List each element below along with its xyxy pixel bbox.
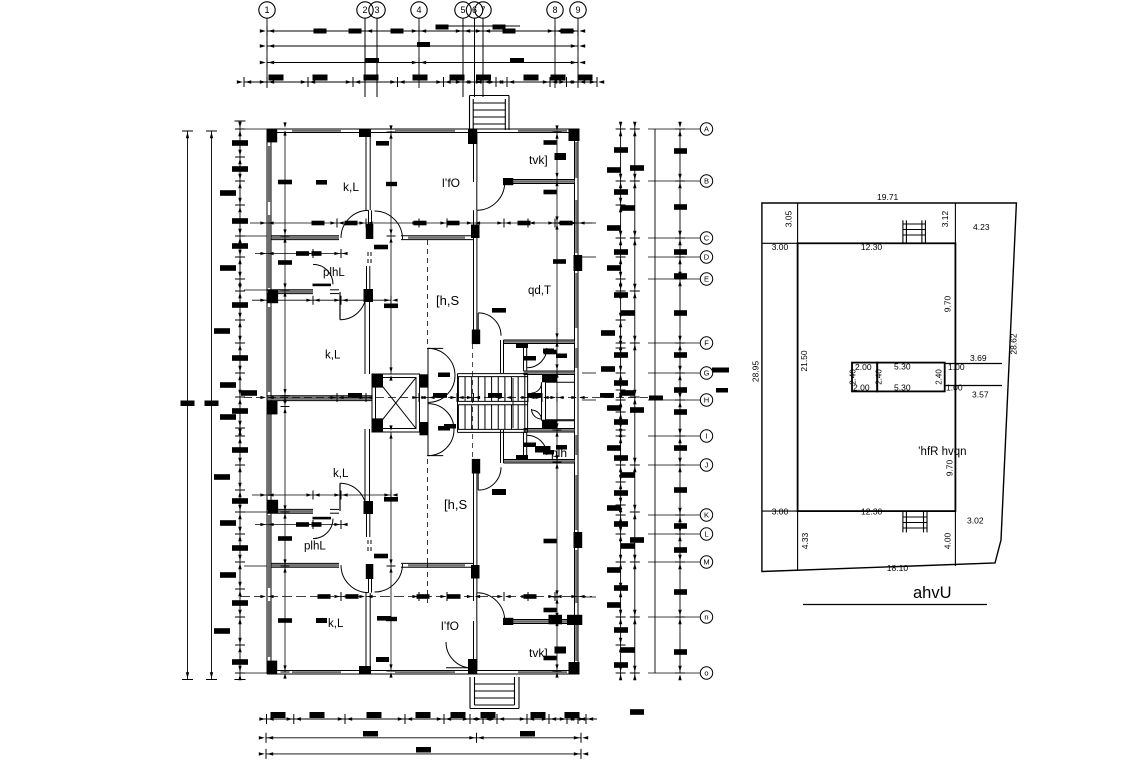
- top entrance stair ladder: [470, 96, 510, 131]
- left wall column at mirror: [268, 401, 278, 415]
- svg-text:L: L: [704, 530, 708, 539]
- svg-text:3: 3: [374, 5, 379, 15]
- right chain dimension line 2 (x=634.8): [630, 122, 644, 715]
- grid bubbles 1-9 with leader lines: [259, 2, 586, 97]
- svg-text:3.00: 3.00: [772, 242, 789, 252]
- svg-text:9.70: 9.70: [942, 295, 952, 312]
- svg-text:7: 7: [480, 5, 485, 15]
- svg-text:plhL: plhL: [323, 267, 345, 279]
- lobby double swing doors: [427, 348, 455, 455]
- left overall dimension line 1: [181, 131, 195, 680]
- party wall at mirror line y=398: [267, 396, 372, 400]
- interior vertical dim x=472.6 dashed: [472, 344, 474, 462]
- site plan dimension texts: [751, 192, 1019, 573]
- svg-text:2.40: 2.40: [849, 369, 858, 385]
- svg-text:18.10: 18.10: [887, 563, 909, 573]
- svg-text:K: K: [704, 511, 709, 520]
- l'fO door arc from bathroom wall: [477, 182, 505, 210]
- svg-text:plhL: plhL: [304, 541, 326, 553]
- svg-text:19.71: 19.71: [877, 192, 899, 202]
- svg-text:l’fO: l’fO: [442, 176, 460, 190]
- interior dim line y=597: [240, 592, 592, 601]
- svg-text:4.23: 4.23: [973, 222, 990, 232]
- svg-text:D: D: [704, 253, 710, 262]
- svg-text:J: J: [705, 461, 709, 470]
- top dimension line 3 (y=62.5): [260, 58, 585, 68]
- left outer wall: [267, 129, 271, 402]
- interior wall grid2/3 dashed + lower segments: [365, 252, 371, 374]
- svg-text:2.40: 2.40: [935, 369, 944, 385]
- bathroom wall B (y=179.5): [505, 180, 575, 183]
- extra small blobs near mid: [444, 396, 663, 429]
- svg-text:3.57: 3.57: [972, 390, 989, 400]
- svg-text:5.30: 5.30: [894, 362, 911, 372]
- wall C (y=236) left piece: [272, 237, 340, 239]
- svg-text:I: I: [705, 432, 707, 441]
- site plan top ladder: [903, 220, 926, 242]
- site plan stair core: [852, 363, 1002, 392]
- left wall extension stubs: [244, 129, 267, 673]
- stray dimension text blobs right of bubbles: [712, 368, 729, 373]
- outer top wall: [267, 129, 578, 133]
- svg-text:M: M: [703, 558, 709, 567]
- interior dim line y=524.5: [255, 520, 348, 529]
- extra bottom bathroom column: [567, 615, 582, 625]
- right extension stubs from plan wall: [582, 223, 596, 597]
- svg-text:4: 4: [416, 5, 421, 15]
- lift shaft with X brace: [372, 374, 429, 435]
- bottom entrance stair ladder: [470, 677, 519, 709]
- mid WC doors near landing: [532, 409, 575, 428]
- svg-text:9.70: 9.70: [945, 459, 955, 476]
- mirrored bottom half of plan: [267, 402, 582, 675]
- svg-text:B: B: [704, 177, 709, 186]
- interior dim line y=495: [252, 491, 398, 500]
- wall F (y=340): [501, 340, 575, 373]
- svg-text:k,L: k,L: [328, 618, 344, 630]
- svg-text:k,L: k,L: [343, 180, 359, 194]
- svg-text:A: A: [704, 125, 709, 134]
- bottom dimension line 2 (y=737.8): [259, 731, 588, 743]
- wall E (y=290) with stub: [267, 284, 339, 294]
- svg-text:2: 2: [362, 5, 367, 15]
- svg-text:1.00: 1.00: [948, 362, 965, 372]
- interior vertical dim x=391: [384, 125, 398, 677]
- interior dim line y=253.5: [255, 249, 348, 258]
- svg-text:21.50: 21.50: [799, 350, 809, 372]
- qd,T door arc at wall F: [478, 313, 501, 336]
- site plan outer boundary: [762, 203, 1017, 572]
- interior dim line y=223: [250, 219, 592, 228]
- small dimension text blobs top half: [316, 141, 567, 377]
- interior dim line y=397.5: [244, 393, 656, 402]
- right chain dimension line 4 (x=680): [674, 122, 687, 680]
- right outer wall: [575, 129, 579, 402]
- svg-text:ahvU: ahvU: [913, 584, 952, 602]
- bottom chain dimension (y=719): [259, 712, 597, 724]
- left overall dimension line 2: [205, 131, 219, 680]
- svg-text:H: H: [704, 396, 709, 405]
- bottom bathroom extra column: [549, 615, 563, 625]
- mirror blobs bottom half: [316, 489, 506, 662]
- WC compartment wall + door: [524, 344, 547, 372]
- plhL door arc: [313, 264, 333, 284]
- svg-text:5: 5: [460, 5, 465, 15]
- svg-text:3.02: 3.02: [967, 516, 984, 526]
- wall C (y=236) right piece: [401, 236, 473, 240]
- svg-text:C: C: [704, 234, 710, 243]
- svg-text:n: n: [704, 613, 708, 622]
- k,L room door arc: [340, 292, 366, 320]
- svg-text:’hfR hvqn: ’hfR hvqn: [918, 446, 967, 458]
- svg-text:4.00: 4.00: [943, 532, 953, 549]
- interior vertical dim x=285: [278, 122, 292, 678]
- svg-text:4.33: 4.33: [800, 532, 810, 549]
- room labels: [304, 153, 567, 660]
- svg-text:3.05: 3.05: [784, 210, 794, 227]
- bathroom divider wall x=473.5 upper: [473, 133, 475, 183]
- svg-text:tvk]: tvk]: [529, 153, 548, 167]
- svg-text:28.95: 28.95: [751, 361, 761, 383]
- left chain dimension (x=240): [214, 121, 257, 680]
- right grid bubbles A-o: [648, 123, 713, 679]
- svg-text:[h,S: [h,S: [444, 497, 467, 512]
- interior wall grid2/3 (x=366) upper segment: [365, 133, 367, 211]
- svg-text:l’fO: l’fO: [441, 619, 459, 633]
- svg-text:3.69: 3.69: [970, 353, 987, 363]
- svg-text:1.00: 1.00: [946, 383, 963, 393]
- svg-text:E: E: [704, 275, 709, 284]
- site plan inner footprint rect: [762, 203, 956, 571]
- svg-text:8: 8: [552, 5, 557, 15]
- double doors at corridor walls x341-403: [341, 210, 403, 239]
- svg-text:2.00: 2.00: [855, 362, 872, 372]
- right dimension line 3 (x=655): [654, 129, 656, 673]
- bottom dimension line 3 (y=753.9): [259, 747, 588, 759]
- top dimension line 2 (y=46): [260, 41, 585, 51]
- staircase: [458, 374, 528, 433]
- svg-text:9: 9: [575, 5, 580, 15]
- svg-text:[h,S: [h,S: [436, 293, 459, 308]
- svg-text:12.30: 12.30: [861, 242, 883, 252]
- site plan title ahvU with underline: [803, 584, 987, 605]
- svg-text:2.40: 2.40: [875, 369, 884, 385]
- top chain dimension (y=82): [237, 75, 604, 88]
- columns top half: [267, 129, 582, 345]
- svg-text:3.00: 3.00: [772, 507, 789, 517]
- svg-text:28.62: 28.62: [1009, 333, 1019, 355]
- wall x=473.5 mid segment: [473, 210, 475, 330]
- svg-text:1: 1: [264, 5, 269, 15]
- interior dim line y=300.2: [252, 296, 398, 305]
- svg-text:qd,T: qd,T: [528, 285, 551, 297]
- bottom entrance door arc: [446, 642, 472, 668]
- svg-text:G: G: [704, 369, 710, 378]
- svg-text:k,L: k,L: [325, 350, 341, 362]
- svg-text:5.30: 5.30: [894, 382, 911, 392]
- svg-text:12.30: 12.30: [861, 507, 883, 517]
- top dimension line 1 (y=31): [260, 25, 585, 37]
- svg-text:k,L: k,L: [333, 468, 349, 480]
- svg-text:plh: plh: [551, 446, 567, 460]
- svg-text:3.12: 3.12: [940, 210, 950, 227]
- svg-text:o: o: [704, 669, 708, 678]
- wall G (y=371): [524, 372, 575, 374]
- site plan bottom ladder: [903, 512, 927, 533]
- dashed stub x=427.5: [427, 240, 429, 346]
- interior vertical dim x=557: [544, 125, 567, 677]
- right chain dimension line 1 (x=620.6): [601, 122, 635, 680]
- svg-text:F: F: [704, 339, 709, 348]
- mid WC upper bits: [532, 375, 575, 402]
